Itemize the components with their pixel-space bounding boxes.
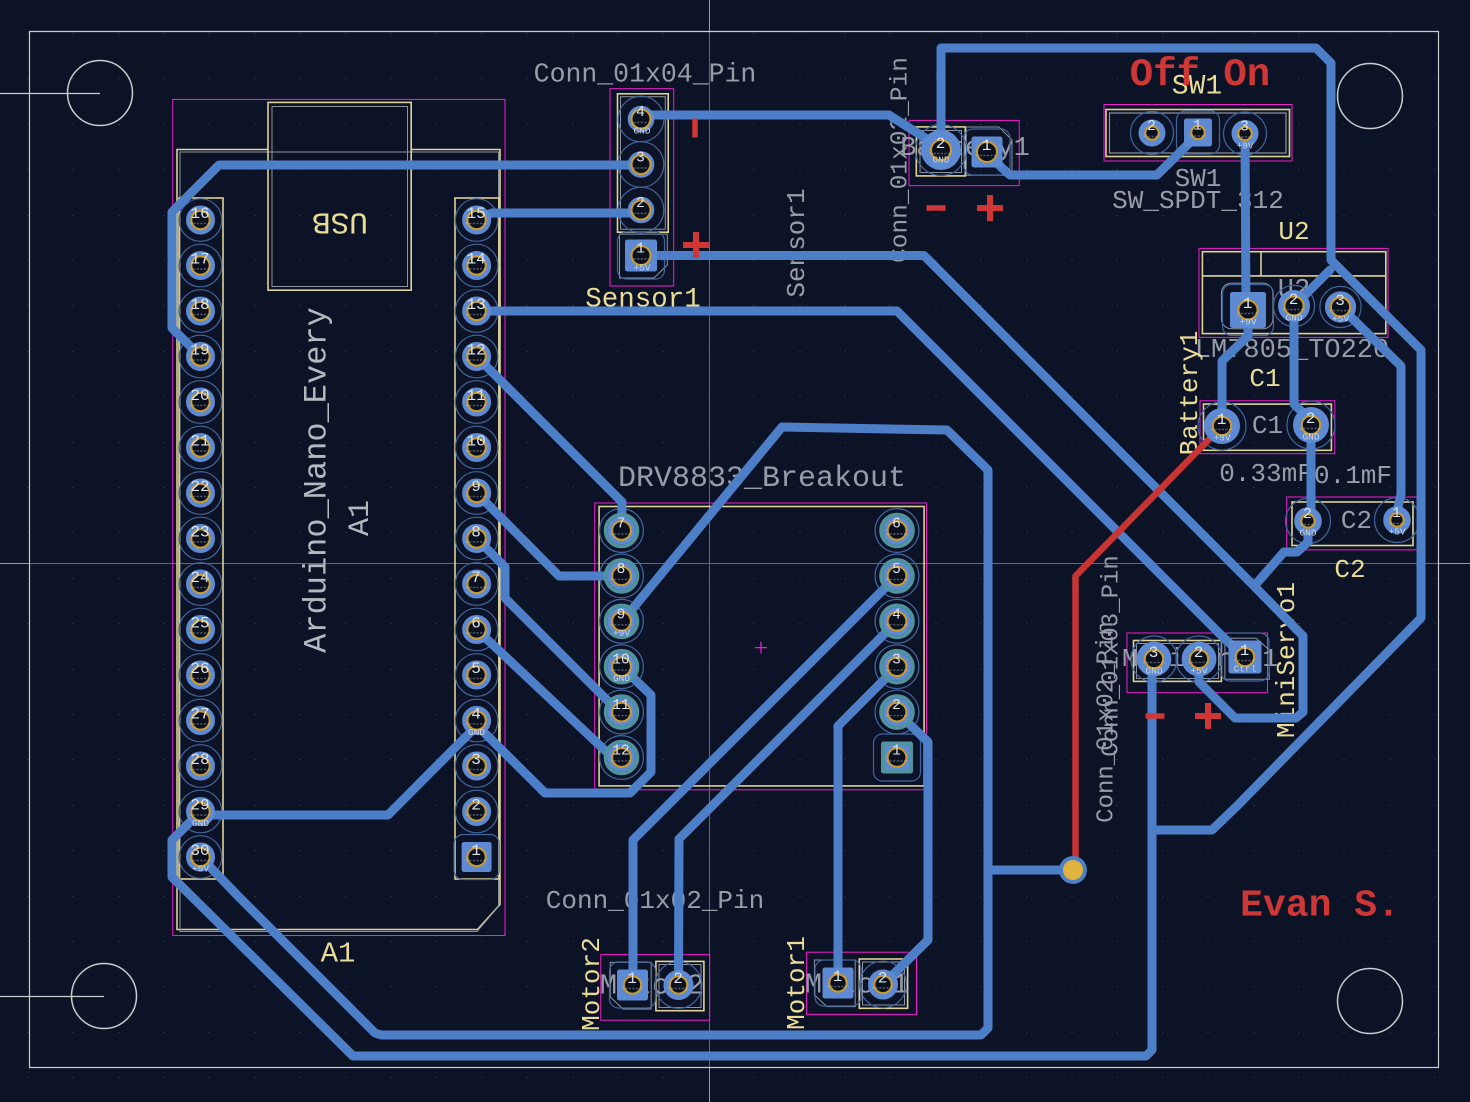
svg-text:3: 3 (636, 151, 645, 167)
svg-text:U2: U2 (1278, 217, 1309, 247)
svg-text:GND: GND (192, 818, 209, 829)
svg-text:GND: GND (468, 727, 485, 738)
svg-text:Motor1: Motor1 (782, 936, 812, 1030)
svg-text:5: 5 (471, 660, 481, 678)
svg-text:+5V: +5V (1190, 666, 1207, 677)
svg-text:5: 5 (892, 562, 901, 578)
svg-text:Arduino_Nano_Every: Arduino_Nano_Every (299, 307, 336, 653)
svg-text:Conn_01x04_Pin: Conn_01x04_Pin (534, 60, 757, 90)
svg-text:+9V: +9V (1213, 433, 1230, 444)
svg-text:1: 1 (471, 842, 481, 860)
svg-text:2: 2 (1147, 119, 1156, 135)
svg-text:Conn_01x02_Pin: Conn_01x02_Pin (1094, 621, 1121, 823)
svg-text:+9V: +9V (1236, 141, 1253, 152)
svg-text:6: 6 (471, 615, 481, 633)
svg-text:2: 2 (892, 698, 901, 714)
svg-text:3: 3 (1335, 292, 1345, 310)
svg-text:29: 29 (190, 797, 209, 815)
svg-text:13: 13 (466, 296, 485, 314)
svg-text:9: 9 (471, 478, 481, 496)
svg-text:2: 2 (936, 135, 946, 153)
svg-text:+5V: +5V (633, 263, 650, 274)
svg-text:Motor2: Motor2 (577, 937, 607, 1031)
svg-text:12: 12 (612, 744, 629, 760)
svg-text:2: 2 (1194, 644, 1204, 662)
svg-text:2: 2 (1289, 291, 1299, 309)
svg-text:8: 8 (471, 524, 481, 542)
svg-text:26: 26 (190, 660, 209, 678)
svg-text:2: 2 (636, 196, 645, 212)
svg-text:10: 10 (612, 653, 629, 669)
svg-text:1: 1 (1240, 642, 1250, 660)
svg-text:Sensor1: Sensor1 (782, 188, 812, 297)
svg-text:12: 12 (466, 342, 485, 360)
svg-text:1: 1 (636, 242, 645, 258)
svg-text:2: 2 (1303, 507, 1312, 523)
svg-text:9: 9 (617, 607, 626, 623)
svg-text:2: 2 (673, 970, 683, 988)
svg-text:7: 7 (471, 569, 481, 587)
svg-text:Evan S.: Evan S. (1240, 885, 1400, 928)
svg-text:GND: GND (1302, 432, 1319, 443)
svg-text:3: 3 (1149, 644, 1159, 662)
svg-text:GND: GND (1145, 666, 1162, 677)
svg-text:17: 17 (190, 251, 209, 269)
svg-text:1: 1 (982, 137, 992, 155)
svg-text:25: 25 (190, 615, 209, 633)
svg-text:Conn_01x02_Pin: Conn_01x02_Pin (546, 886, 764, 916)
svg-text:22: 22 (190, 478, 209, 496)
svg-text:6: 6 (892, 517, 901, 533)
svg-text:20: 20 (190, 387, 209, 405)
svg-text:C2: C2 (1341, 506, 1372, 536)
svg-text:14: 14 (466, 251, 485, 269)
svg-text:18: 18 (190, 296, 209, 314)
svg-text:30: 30 (190, 842, 209, 860)
svg-text:15: 15 (466, 205, 485, 223)
svg-text:4: 4 (636, 105, 645, 121)
svg-text:USB: USB (312, 204, 368, 239)
svg-text:Off On: Off On (1130, 53, 1270, 97)
svg-text:GND: GND (932, 155, 949, 166)
svg-text:4: 4 (892, 607, 901, 623)
svg-text:19: 19 (190, 342, 209, 360)
svg-text:1: 1 (627, 970, 637, 988)
svg-text:2: 2 (471, 797, 481, 815)
svg-text:23: 23 (190, 524, 209, 542)
svg-text:1: 1 (1243, 295, 1253, 313)
svg-text:16: 16 (190, 205, 209, 223)
svg-text:1: 1 (1193, 119, 1202, 135)
svg-text:3: 3 (1240, 120, 1249, 136)
svg-text:4: 4 (471, 706, 481, 724)
svg-text:1: 1 (1392, 506, 1401, 522)
svg-text:24: 24 (190, 569, 209, 587)
svg-text:GND: GND (1299, 528, 1316, 539)
svg-text:2: 2 (1306, 410, 1316, 428)
svg-text:GND: GND (1285, 313, 1302, 324)
svg-text:+5V: +5V (1332, 314, 1349, 325)
svg-text:SW_SPDT_312: SW_SPDT_312 (1112, 186, 1284, 216)
svg-text:2: 2 (878, 970, 888, 988)
svg-text:GND: GND (633, 126, 650, 137)
svg-text:A1: A1 (344, 500, 378, 536)
svg-text:A1: A1 (321, 938, 356, 971)
svg-text:11: 11 (612, 698, 629, 714)
svg-text:21: 21 (190, 433, 209, 451)
svg-text:+9V: +9V (1239, 317, 1256, 328)
svg-text:10: 10 (466, 433, 485, 451)
svg-text:Ctrl: Ctrl (1234, 664, 1257, 675)
svg-text:C1: C1 (1249, 364, 1280, 394)
svg-text:+9V: +9V (192, 864, 209, 875)
svg-text:C1: C1 (1252, 411, 1283, 441)
svg-text:3: 3 (892, 653, 901, 669)
svg-text:1: 1 (892, 744, 901, 760)
svg-text:11: 11 (466, 387, 485, 405)
svg-text:28: 28 (190, 751, 209, 769)
svg-text:7: 7 (617, 517, 626, 533)
svg-text:1: 1 (833, 968, 843, 986)
svg-text:C2: C2 (1334, 555, 1365, 585)
svg-text:1: 1 (1217, 411, 1227, 429)
svg-text:0.1mF: 0.1mF (1314, 461, 1392, 491)
svg-text:Conn_01x02_Pin: Conn_01x02_Pin (888, 57, 915, 263)
svg-text:27: 27 (190, 706, 209, 724)
svg-text:3: 3 (471, 751, 481, 769)
svg-text:DRV8833_Breakout: DRV8833_Breakout (618, 462, 906, 496)
svg-text:0.33mF: 0.33mF (1219, 459, 1313, 489)
svg-text:GND: GND (613, 673, 630, 684)
svg-text:+5V: +5V (1388, 527, 1405, 538)
svg-text:+9V: +9V (613, 628, 630, 639)
svg-text:8: 8 (617, 562, 626, 578)
